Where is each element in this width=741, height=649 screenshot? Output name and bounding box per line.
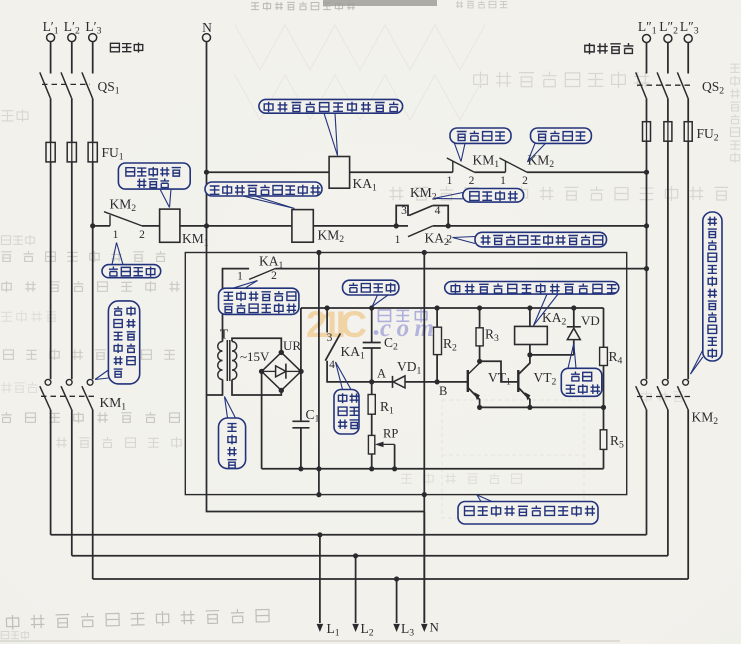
svg-text:1: 1 [447, 175, 453, 187]
svg-text:B: B [439, 384, 447, 398]
svg-text:1: 1 [500, 175, 506, 187]
svg-text:3: 3 [401, 205, 407, 217]
svg-text:3: 3 [327, 332, 333, 344]
svg-text:4: 4 [435, 205, 441, 217]
svg-text:2: 2 [271, 270, 277, 282]
svg-text:A: A [377, 367, 386, 381]
svg-text:~15V: ~15V [240, 349, 270, 364]
svg-text:4: 4 [329, 359, 335, 371]
svg-text:1: 1 [395, 234, 401, 246]
svg-text:2: 2 [469, 175, 475, 187]
svg-text:UR: UR [283, 338, 301, 353]
svg-text:RP: RP [383, 427, 398, 441]
svg-text:T: T [220, 327, 229, 342]
svg-text:N: N [202, 20, 212, 35]
svg-text:2: 2 [522, 175, 528, 187]
svg-text:VD: VD [581, 313, 600, 328]
svg-text:1: 1 [113, 229, 119, 241]
svg-text:N: N [430, 620, 440, 635]
svg-text:1: 1 [237, 271, 243, 283]
svg-text:2: 2 [139, 229, 145, 241]
